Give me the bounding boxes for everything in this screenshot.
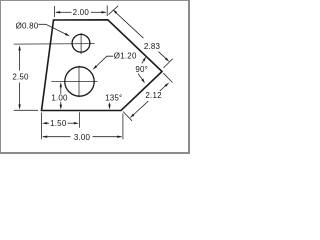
svg-text:2.00: 2.00: [73, 8, 90, 17]
svg-text:2.12: 2.12: [145, 91, 162, 100]
svg-text:Ø0.80: Ø0.80: [16, 22, 39, 31]
svg-text:1.50: 1.50: [50, 119, 67, 128]
svg-text:90°: 90°: [135, 65, 148, 74]
svg-text:Ø1.20: Ø1.20: [114, 52, 137, 61]
svg-text:3.00: 3.00: [74, 133, 91, 142]
svg-text:1.00: 1.00: [51, 94, 68, 103]
svg-text:2.50: 2.50: [12, 73, 29, 82]
svg-text:2.83: 2.83: [144, 42, 161, 51]
svg-text:135°: 135°: [105, 93, 122, 102]
